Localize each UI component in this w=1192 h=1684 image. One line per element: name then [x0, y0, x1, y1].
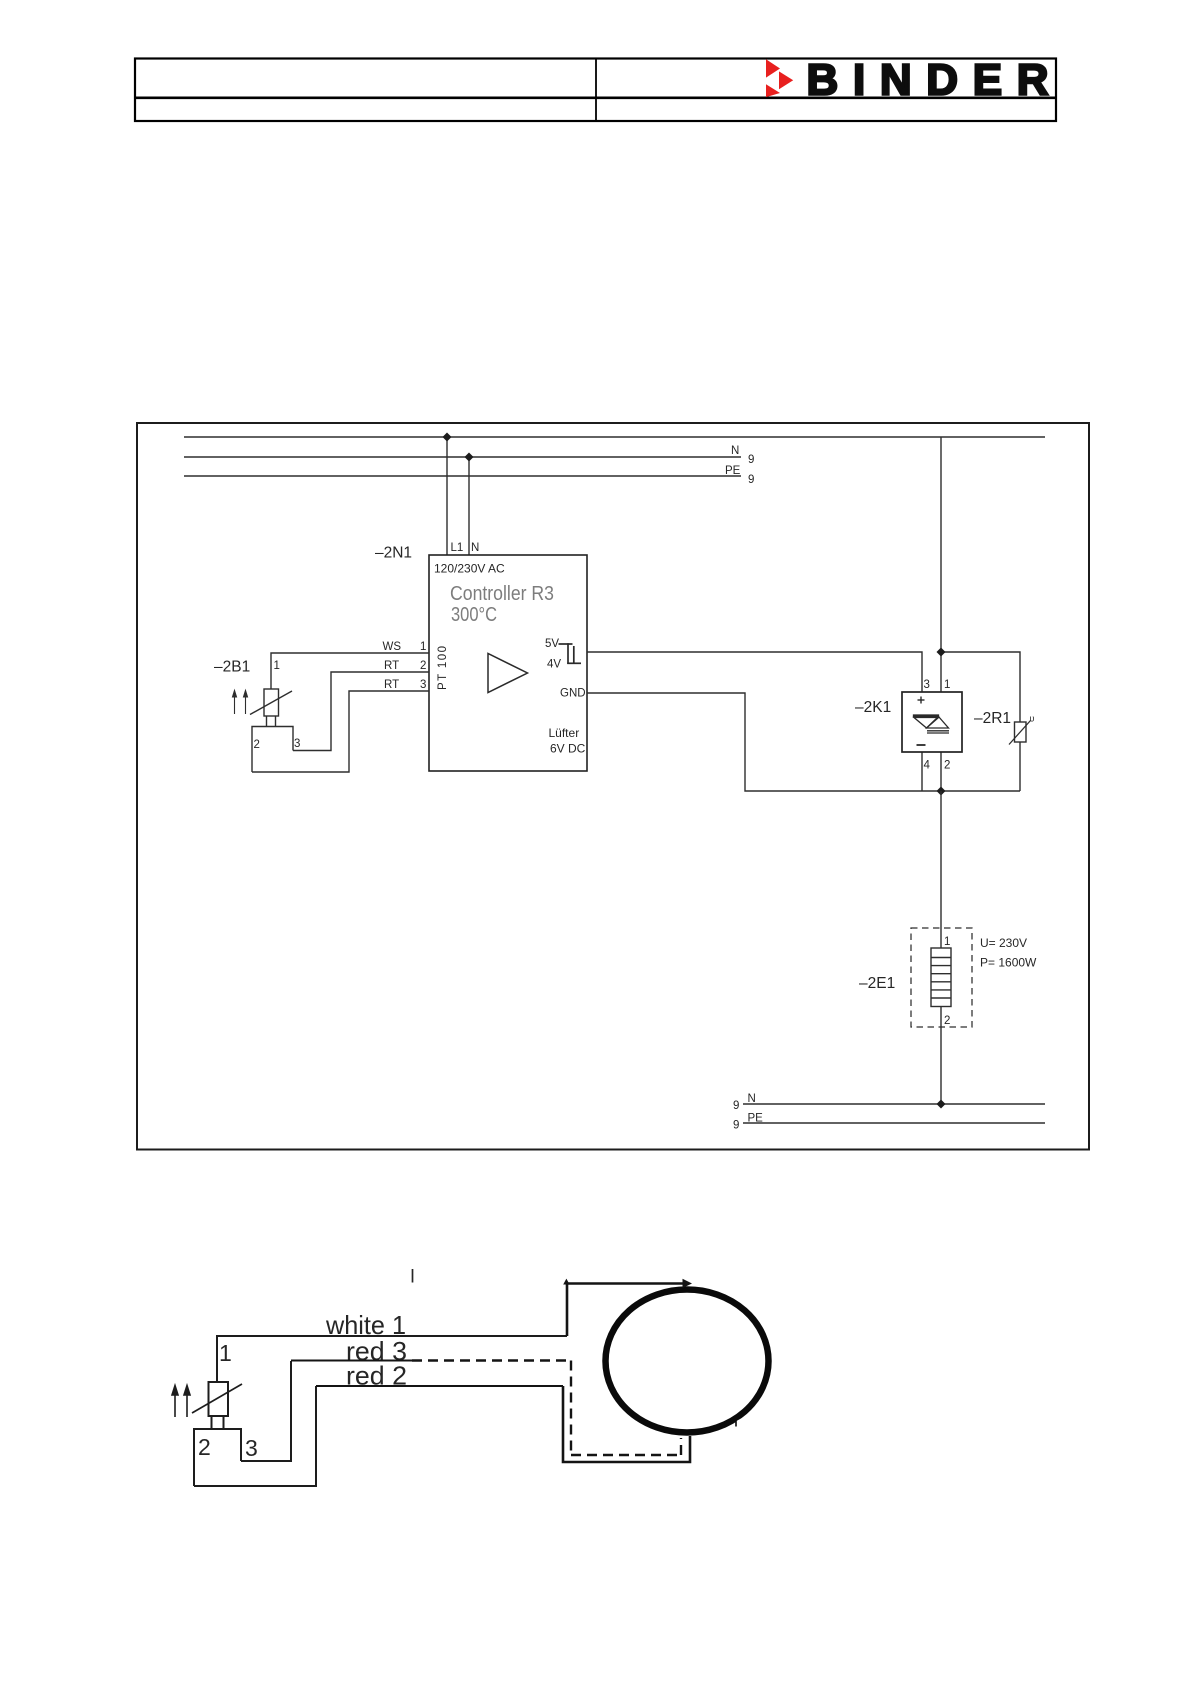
- svg-text:2: 2: [254, 739, 260, 751]
- wire relay pin4 down: [921, 752, 923, 791]
- svg-text:2: 2: [944, 1015, 950, 1027]
- svg-text:–2B1: –2B1: [214, 659, 250, 676]
- svg-text:υ: υ: [1030, 714, 1035, 724]
- wire red2 solid lead: [316, 1385, 563, 1387]
- wire heater to N rail: [940, 1007, 942, 1105]
- svg-text:PE: PE: [748, 1113, 764, 1125]
- svg-text:N: N: [471, 542, 479, 554]
- svg-text:2: 2: [420, 660, 426, 672]
- wire GND to bottom rail: [587, 693, 1020, 791]
- svg-text:6V DC: 6V DC: [550, 742, 586, 756]
- wire WS to controller pin1: [271, 653, 429, 689]
- svg-text:2: 2: [198, 1434, 211, 1460]
- node relay pin1 junction: [937, 648, 946, 657]
- motor circle notch: [736, 1416, 751, 1429]
- sensor bottom bracket: [252, 727, 293, 773]
- svg-text:3: 3: [245, 1435, 258, 1461]
- wire L1 bus: [184, 436, 1045, 438]
- wire red3 dashed run: [412, 1361, 681, 1456]
- wire to resistor 2R1 top: [941, 652, 1020, 722]
- svg-text:P= 1600W: P= 1600W: [980, 956, 1037, 970]
- relay plus mark: [918, 697, 925, 704]
- svg-text:Controller R3: Controller R3: [450, 582, 554, 605]
- header table column divider: [595, 58, 597, 121]
- resistor R1 diagonal: [1009, 721, 1031, 745]
- svg-text:–2N1: –2N1: [375, 545, 412, 562]
- svg-text:1: 1: [944, 936, 950, 948]
- wire N bus: [184, 456, 741, 458]
- triac symbol: [914, 715, 950, 733]
- header table outer border: [135, 59, 1056, 122]
- svg-text:9: 9: [733, 1100, 739, 1112]
- svg-text:U= 230V: U= 230V: [980, 936, 1027, 950]
- heater element E1: [931, 948, 951, 1007]
- svg-text:3: 3: [420, 679, 426, 691]
- svg-text:PE: PE: [725, 465, 741, 477]
- schematic border frame: [137, 423, 1089, 1150]
- svg-text:300°C: 300°C: [451, 603, 497, 626]
- node heater N junction: [937, 1100, 946, 1109]
- sensor -2B1 body: [264, 689, 279, 716]
- wire red3 from pin3: [241, 1361, 291, 1461]
- svg-text:–2E1: –2E1: [859, 975, 895, 992]
- svg-text:RT: RT: [384, 660, 399, 672]
- pulse edge icon: [559, 643, 582, 664]
- wire PE bottom rail: [743, 1122, 1045, 1124]
- svg-text:4V: 4V: [547, 659, 561, 671]
- svg-text:1: 1: [944, 679, 950, 691]
- arrow head into motor: [683, 1279, 693, 1288]
- label I tick: [412, 1269, 414, 1283]
- temperature arrows: [233, 691, 248, 715]
- svg-text:9: 9: [748, 474, 754, 486]
- relay K1 box: [902, 692, 962, 752]
- wire rail to heater: [940, 791, 942, 948]
- svg-text:9: 9: [733, 1120, 739, 1132]
- wire pin2 to RT3: [252, 691, 429, 772]
- wire PE bus: [184, 475, 741, 477]
- BINDER logo red triangles: [766, 59, 793, 97]
- svg-text:3: 3: [924, 679, 930, 691]
- motor circle: [606, 1290, 769, 1433]
- wire relay pin2 down: [940, 752, 942, 791]
- svg-text:WS: WS: [383, 641, 402, 653]
- wire white1 from pin1: [217, 1336, 567, 1382]
- sensor B2 neck: [211, 1416, 213, 1429]
- heater dashed enclosure: [911, 928, 972, 1027]
- wire relay pin1 from L1 bus: [940, 437, 942, 692]
- svg-text:9: 9: [748, 454, 754, 466]
- node L1 junction: [443, 433, 452, 442]
- svg-text:GND: GND: [560, 688, 586, 700]
- svg-text:4: 4: [924, 760, 931, 772]
- svg-text:2: 2: [944, 760, 950, 772]
- wire controller output to relay pin3: [587, 652, 922, 692]
- header table row divider: [134, 97, 1056, 100]
- wire white1 riser and arrow: [566, 1284, 686, 1337]
- svg-text:N: N: [748, 1093, 756, 1105]
- relay minus mark: [917, 744, 926, 746]
- temperature arrows (lower): [172, 1386, 190, 1418]
- svg-text:5V: 5V: [545, 638, 559, 650]
- op-amp triangle: [488, 654, 528, 693]
- sensor B2 bracket: [194, 1429, 241, 1486]
- wire red2 solid run: [563, 1386, 690, 1462]
- wire red2 from pin2: [194, 1386, 316, 1486]
- svg-text:1: 1: [274, 660, 280, 672]
- node bottom rail junction: [937, 787, 946, 796]
- svg-text:PT 100: PT 100: [437, 646, 449, 690]
- wire L1 drop to controller: [446, 437, 448, 555]
- svg-text:–2K1: –2K1: [855, 699, 891, 716]
- arrow tick at corner: [563, 1279, 569, 1285]
- sensor neck below: [266, 716, 268, 727]
- svg-text:N: N: [731, 445, 739, 457]
- svg-text:1: 1: [219, 1340, 232, 1366]
- svg-text:–2R1: –2R1: [974, 710, 1011, 727]
- svg-text:L1: L1: [451, 542, 464, 554]
- svg-text:1: 1: [420, 641, 426, 653]
- node N junction: [465, 453, 474, 462]
- wire N bottom rail: [743, 1103, 1045, 1105]
- wire pin3 to RT2: [293, 672, 429, 751]
- sensor B2 body: [209, 1382, 229, 1416]
- sensor B2 diagonal: [192, 1384, 242, 1413]
- svg-text:120/230V AC: 120/230V AC: [434, 562, 505, 576]
- svg-text:Lüfter: Lüfter: [549, 726, 580, 740]
- controller U1 box -2N1: [429, 555, 587, 771]
- wire N drop to controller: [468, 457, 470, 555]
- svg-text:3: 3: [294, 738, 300, 750]
- resistor R1 body: [1015, 722, 1027, 742]
- sensor B2 (PT100, lower): [194, 1336, 567, 1486]
- sensor -2B1 diagonal: [250, 691, 292, 715]
- wire resistor 2R1 bottom: [1019, 742, 1021, 791]
- svg-text:RT: RT: [384, 679, 399, 691]
- wire red3 solid lead: [291, 1360, 412, 1362]
